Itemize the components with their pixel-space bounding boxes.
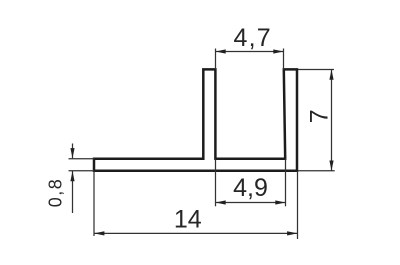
dimension 4,7 (top, between channel inner faces) [216, 49, 284, 70]
dimension line [216, 51, 284, 53]
dimension 7 (right, overall height) [298, 70, 335, 171]
arrow left of 4,7 [216, 49, 226, 53]
svg-text:14: 14 [174, 206, 202, 234]
extension line top [69, 158, 95, 160]
dimension line below [72, 171, 74, 213]
arrow right of 4,7 [273, 49, 283, 53]
dimension line above [72, 144, 74, 159]
extension line left [215, 49, 217, 70]
extension line left [215, 159, 217, 207]
extension line right [283, 49, 285, 70]
extension line bottom [298, 170, 335, 172]
profile outline (aluminium channel cross-section) [94, 69, 297, 170]
dimension line [331, 70, 333, 171]
dimension line [94, 232, 298, 234]
svg-text:0,8: 0,8 [46, 178, 66, 208]
arrow down to plate top (0,8) [70, 148, 74, 158]
arrow left of 4,9 [216, 200, 226, 204]
extension line right [297, 171, 299, 239]
arrow bottom of 7 [329, 161, 333, 171]
arrow up to plate bottom (0,8) [70, 171, 74, 181]
arrow right of 4,9 [275, 200, 285, 204]
dimension 0,8 (left, plate thickness) [69, 144, 95, 214]
svg-text:7: 7 [305, 109, 333, 123]
svg-text:4,9: 4,9 [233, 174, 268, 202]
svg-text:4,7: 4,7 [234, 24, 272, 52]
extension line bottom [69, 170, 95, 172]
arrow top of 7 [329, 70, 333, 80]
extension line top [298, 69, 334, 71]
dimension 14 (bottom overall width) [94, 171, 298, 239]
extension line left [93, 171, 95, 236]
dimension 4,9 (bottom inner width) [216, 159, 286, 207]
extension line right [285, 159, 287, 207]
arrow left of 14 [94, 231, 104, 235]
arrow right of 14 [287, 231, 297, 235]
dimension line [216, 202, 286, 204]
